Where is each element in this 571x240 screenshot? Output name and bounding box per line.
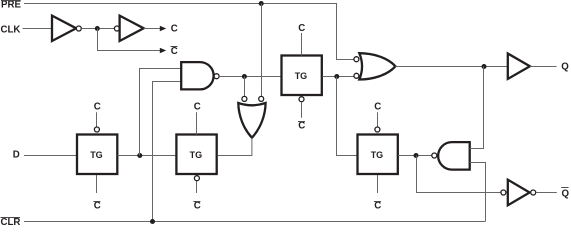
- svg-text:C: C: [94, 102, 101, 113]
- svg-text:C: C: [171, 46, 178, 57]
- or gate U3 (pointing down): [238, 103, 265, 138]
- svg-text:CLK: CLK: [1, 25, 21, 36]
- svg-text:TG: TG: [371, 150, 384, 160]
- wire Q output: [530, 66, 557, 68]
- wire C stub to TG3: [301, 33, 303, 56]
- wire U4 output to TG3: [219, 76, 281, 78]
- bubble U5 top input: [354, 57, 359, 62]
- svg-text:C: C: [194, 102, 201, 113]
- label C-bar below TG4: [374, 200, 381, 211]
- svg-text:D: D: [13, 150, 20, 161]
- svg-text:C: C: [171, 24, 178, 35]
- wire C-bar branch with arrowhead: [98, 29, 167, 54]
- net label PRE (active low): [1, 0, 21, 11]
- label C-bar below TG2: [193, 200, 200, 211]
- bubble U3 left input: [242, 96, 247, 101]
- wire C stub to TG1: [96, 112, 98, 127]
- wire C stub to TG4: [377, 112, 379, 127]
- svg-text:CLR: CLR: [1, 217, 21, 226]
- buffer U2: [120, 16, 144, 41]
- wire TG1 bottom stub: [96, 175, 98, 193]
- bubble U3 right input: [259, 96, 264, 101]
- wire U5 output to Q buffer: [395, 66, 507, 68]
- label C-bar below TG3: [298, 121, 305, 132]
- wire CLK input: [23, 28, 53, 30]
- wire U1 to junction: [81, 28, 114, 30]
- buffer U7 (Q output): [508, 54, 530, 79]
- junction U4 output branch: [242, 74, 247, 79]
- nand gate U4: [181, 62, 213, 89]
- bubble U8 output: [531, 190, 536, 195]
- svg-text:TG: TG: [90, 150, 103, 160]
- junction on PRE line: [259, 1, 264, 6]
- bubble TG4 top: [375, 127, 380, 132]
- wire PRE line: [24, 4, 354, 60]
- wire TG3 output: [323, 76, 354, 78]
- bubble TG1 top: [94, 127, 99, 132]
- bubble U6 output: [432, 153, 437, 158]
- bubble U8 input: [501, 190, 506, 195]
- wire CLR branch up to NAND U4 bottom input: [153, 82, 182, 222]
- svg-text:C: C: [298, 23, 305, 34]
- junction on CLR line: [150, 219, 155, 224]
- wire Q-bar output: [536, 192, 557, 194]
- svg-text:TG: TG: [295, 71, 308, 81]
- transmission gate TG4: [358, 135, 398, 175]
- wire D input: [24, 155, 77, 157]
- wire U3 output to TG2 right side: [218, 138, 252, 156]
- junction TG3 output branch: [334, 74, 339, 79]
- transmission gate TG2: [176, 135, 216, 175]
- svg-text:TG: TG: [190, 150, 203, 160]
- wire TG3 output down to TG4 input: [337, 77, 358, 156]
- junction Q node: [482, 64, 487, 69]
- transmission gate TG3: [282, 56, 322, 96]
- svg-text:PRE: PRE: [1, 0, 21, 11]
- wire U6 bottom input from CLR line: [470, 163, 486, 222]
- bubble U1 output: [76, 26, 81, 31]
- buffer U8 (Q-bar output): [508, 180, 530, 206]
- svg-text:Q: Q: [561, 61, 569, 72]
- junction Q-bar node: [414, 153, 419, 158]
- bubble U2 input: [114, 26, 119, 31]
- wire TG2 bottom stub: [196, 181, 198, 193]
- wire U6 top input from Q node: [470, 148, 484, 150]
- wire down to OR U3 left input: [244, 77, 246, 97]
- bubble U5 bottom input: [354, 73, 359, 78]
- junction CLK-inverted node: [95, 26, 100, 31]
- wire Q-bar node down to buffer U8: [417, 156, 501, 193]
- junction node between TG1 and TG2: [137, 153, 142, 158]
- wire TG1 output to TG2: [118, 155, 177, 157]
- net label Q-bar: [561, 188, 569, 200]
- transmission gate TG1: [77, 135, 117, 175]
- label C-bar below TG1: [93, 200, 100, 211]
- or gate U5 (pointing right): [359, 53, 395, 79]
- wire TG4 bottom stub: [377, 175, 379, 193]
- bubble TG3 bottom: [299, 97, 304, 102]
- wire U2 output with arrowhead: [144, 26, 167, 32]
- bubble TG2 bottom: [194, 176, 199, 181]
- svg-text:C: C: [298, 121, 305, 132]
- svg-text:C: C: [374, 102, 381, 113]
- wire TG4 output to NAND U6: [398, 155, 432, 157]
- svg-text:Q: Q: [562, 188, 570, 199]
- net label C-bar (clock complement): [171, 46, 178, 57]
- wire Q node down to NAND U6 top input: [470, 67, 484, 149]
- wire PRE branch down to OR gate U3 input: [261, 4, 263, 97]
- wire CLR line: [24, 221, 486, 223]
- wire C stub to TG2: [196, 112, 198, 134]
- wire latch node up to NAND U4 top input: [140, 69, 182, 156]
- bubble U4 output: [214, 74, 219, 79]
- wire TG3 bottom stub: [301, 102, 303, 118]
- inverter U1: [52, 16, 76, 41]
- net label CLR (active low): [1, 217, 21, 228]
- nand gate U6 (facing left): [438, 142, 470, 170]
